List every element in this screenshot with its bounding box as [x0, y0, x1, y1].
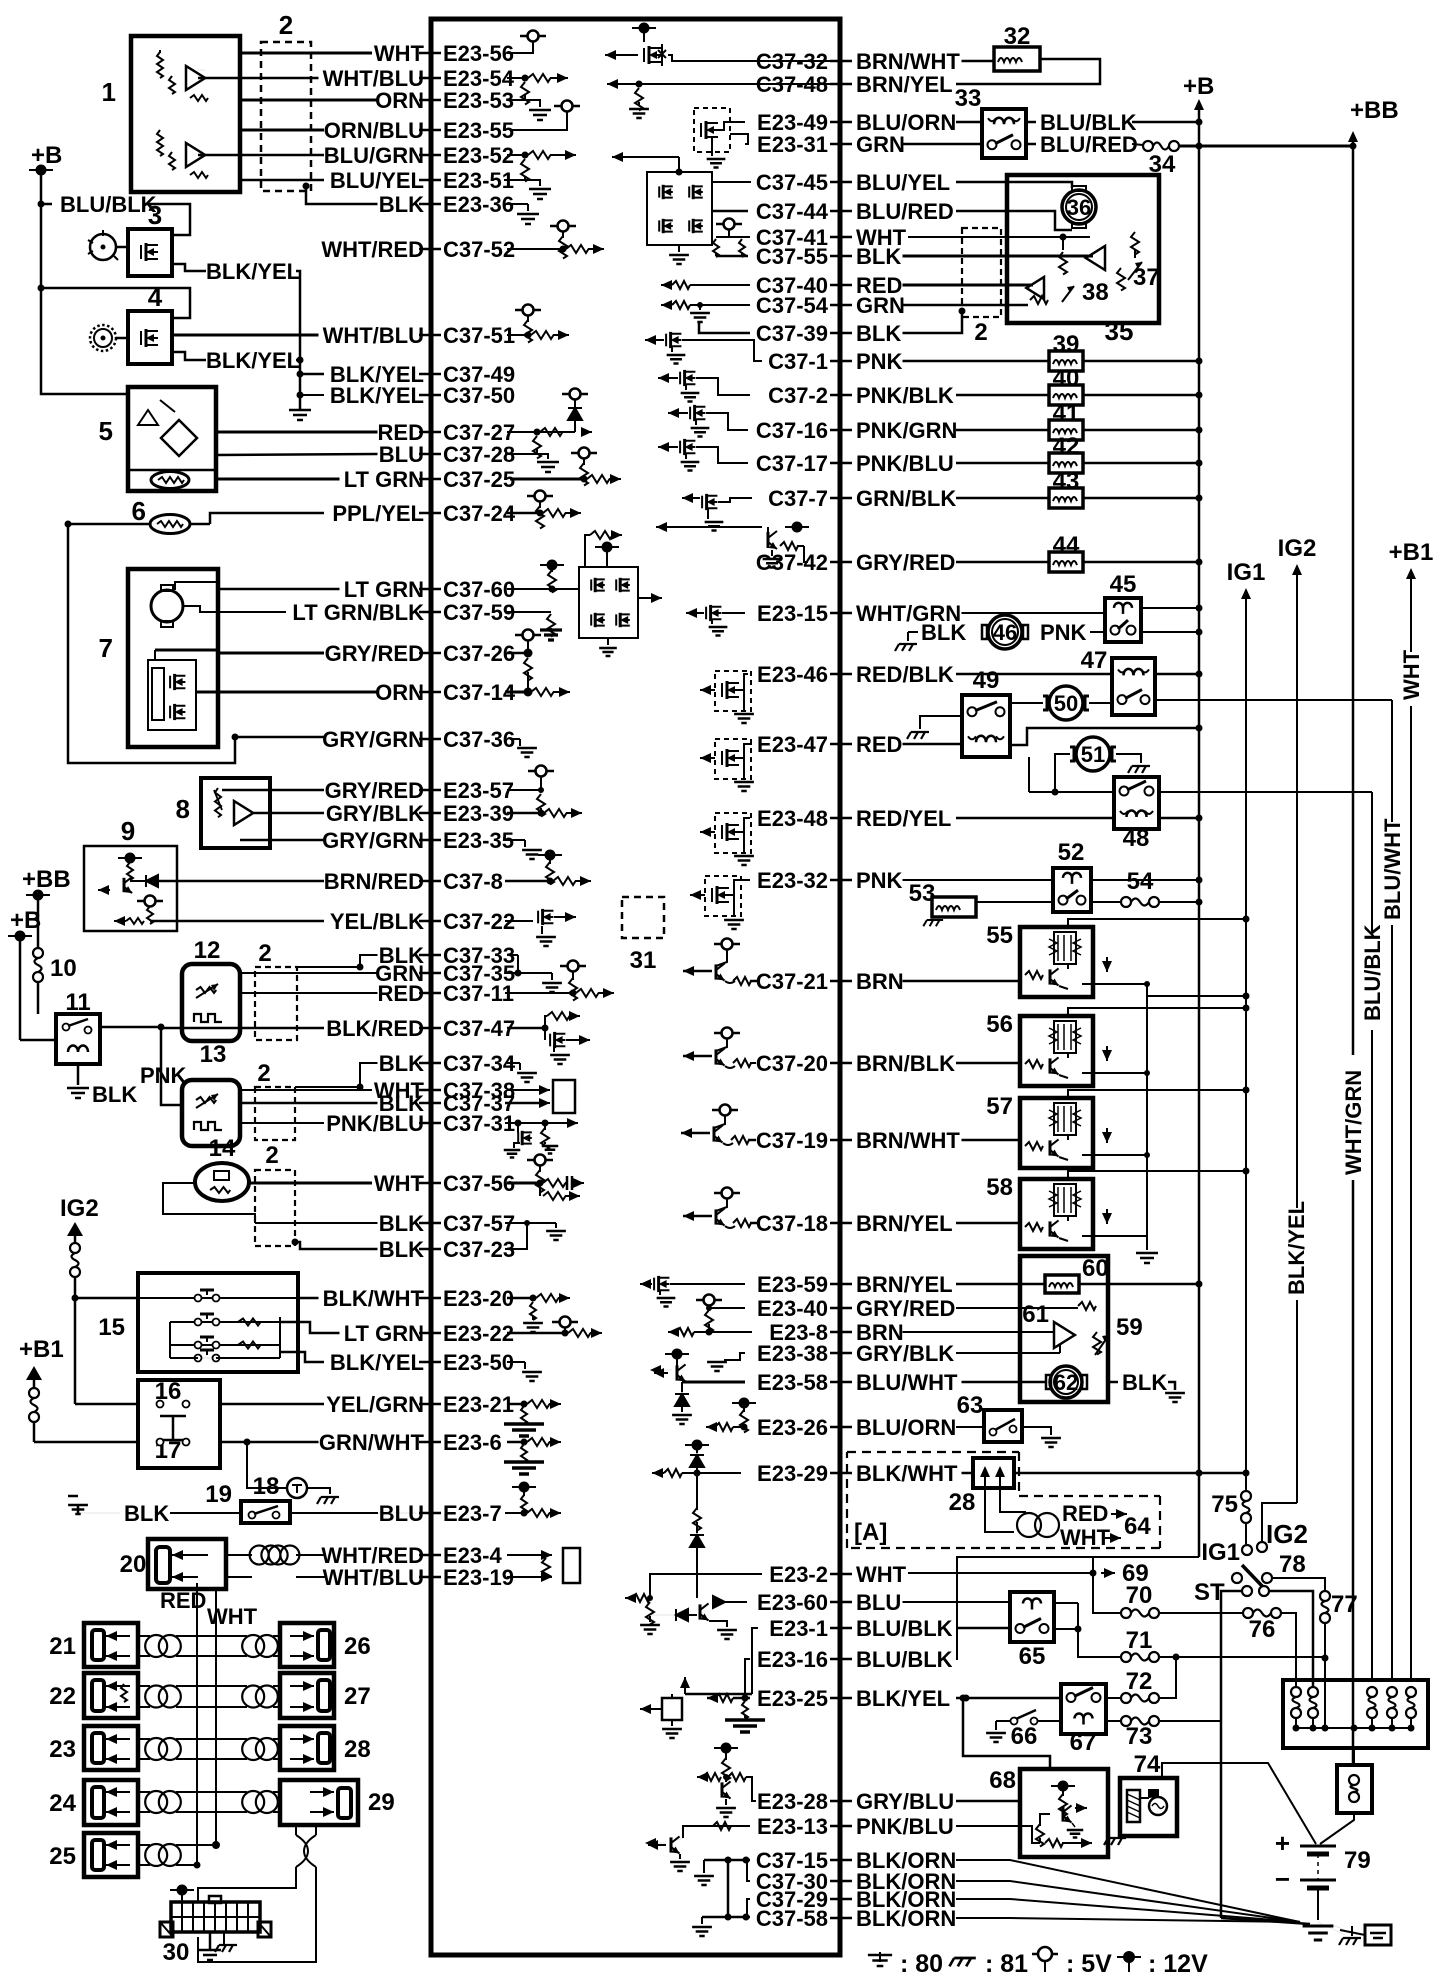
svg-text:: 81: : 81: [985, 1950, 1028, 1978]
ground bend at E23-38: [724, 1353, 745, 1360]
wires E23-1/E23-16 internal: [752, 1628, 758, 1694]
svg-text:21: 21: [49, 1633, 76, 1660]
branches at C37-31: [505, 1122, 570, 1124]
pin C37-16 / wire PNK/GRN: [830, 429, 852, 432]
wire BRN/WHT into 57: [962, 1139, 1021, 1142]
arrow out of quad box: [638, 597, 652, 599]
BLU/WHT rail: [1391, 700, 1393, 822]
wire +B1 into 17: [34, 1441, 138, 1444]
wire BLK/WHT through to rails: [1014, 1472, 1246, 1475]
resistor arrow at E23-54: [522, 75, 529, 82]
pin E23-2 / wire WHT: [830, 1573, 852, 1576]
svg-text:64: 64: [1124, 1513, 1151, 1540]
svg-text:39: 39: [1053, 331, 1080, 358]
svg-text:2: 2: [265, 1142, 278, 1169]
svg-text:C37-11: C37-11: [443, 981, 514, 1006]
svg-text:C37-47: C37-47: [443, 1016, 515, 1041]
pin E23-39 / wire GRY/BLK: [419, 812, 441, 815]
wire BLK/YEL to 67: [956, 1697, 1061, 1700]
ST wire to ground: [1221, 1918, 1310, 1924]
pin C37-2 / wire PNK/BLK: [830, 394, 852, 397]
switch 16: [157, 1401, 164, 1408]
ground under quad box: [607, 638, 609, 645]
svg-text:BLU: BLU: [379, 442, 424, 467]
ground at E23-50: [507, 1361, 525, 1363]
svg-text:24: 24: [49, 1790, 76, 1817]
pin C37-39 / wire BLK: [830, 332, 852, 335]
pin E23-54 / wire WHT/BLU: [419, 77, 441, 80]
svg-text:WHT/BLU: WHT/BLU: [323, 323, 424, 348]
mosfet pair inside 7: [148, 660, 196, 730]
wire BRN/RED to C37-8: [158, 880, 324, 883]
svg-text:14: 14: [209, 1135, 236, 1162]
pin C37-25 / wire LT GRN: [419, 478, 441, 481]
svg-text:9: 9: [121, 816, 135, 846]
svg-text:BLK/YEL: BLK/YEL: [206, 259, 300, 284]
svg-text:BLU/RED: BLU/RED: [856, 199, 954, 224]
svg-text:C37-7: C37-7: [768, 486, 828, 511]
svg-text:WHT: WHT: [374, 1171, 425, 1196]
RED vertical wire: [196, 1583, 198, 1864]
5V chain at C37-24: [535, 491, 546, 502]
svg-text:2: 2: [257, 1060, 270, 1087]
pin E23-25 / wire BLK/YEL: [830, 1697, 852, 1700]
svg-text:BLU/BLK: BLU/BLK: [856, 1616, 953, 1641]
svg-text:E23-15: E23-15: [757, 601, 828, 626]
svg-text:43: 43: [1053, 468, 1080, 495]
op-amp U1b inside component 1: [186, 143, 205, 167]
grounds under 30: [209, 1932, 212, 1950]
BLU/BLK rail: [1371, 792, 1373, 935]
wire BLU/RED into 35: [956, 211, 1072, 230]
svg-text:50: 50: [1054, 691, 1078, 716]
pin E23-60 / wire BLU: [830, 1601, 852, 1604]
svg-text:: 12V: : 12V: [1148, 1950, 1208, 1978]
wire GRN/WHT to E23-6: [220, 1441, 319, 1444]
svg-text:GRY/BLK: GRY/BLK: [856, 1341, 954, 1366]
pin E23-51 / wire BLU/YEL: [419, 179, 441, 182]
svg-text:BLK/YEL: BLK/YEL: [856, 1686, 950, 1711]
svg-text:LT GRN: LT GRN: [344, 467, 424, 492]
wire BLK/YEL from component 4: [172, 352, 206, 360]
svg-text:13: 13: [200, 1041, 227, 1068]
output transistor at C37-20: [722, 1028, 733, 1039]
wire YEL/BLK to C37-22: [150, 920, 324, 923]
svg-text:C37-22: C37-22: [443, 909, 515, 934]
svg-text:E23-56: E23-56: [443, 41, 514, 66]
driver at E23-59: [639, 1283, 641, 1285]
svg-text:65: 65: [1019, 1643, 1046, 1670]
wire BLK/WHT through 15 to E23-20: [298, 1297, 319, 1300]
svg-text:WHT: WHT: [856, 1562, 907, 1587]
svg-text:C37-56: C37-56: [443, 1171, 515, 1196]
pin C37-21 / wire BRN: [830, 980, 852, 983]
wire BLK/RED to C37-47: [161, 1027, 324, 1030]
pin C37-60 / wire LT GRN: [419, 588, 441, 591]
motor 50: [1043, 696, 1047, 710]
svg-text:BLK/YEL: BLK/YEL: [1284, 1201, 1309, 1295]
svg-text:C37-28: C37-28: [443, 442, 515, 467]
output transistor at C37-18: [722, 1188, 733, 1199]
svg-text:GRY/RED: GRY/RED: [325, 778, 424, 803]
svg-text:GRY/RED: GRY/RED: [856, 1296, 955, 1321]
motor 62 inside 59: [1050, 1366, 1082, 1398]
quad mosfet box at C37-60/59: [579, 567, 638, 638]
component 59 box: [1020, 1256, 1108, 1402]
5V chain at E23-40/E23-8: [704, 1295, 715, 1306]
svg-text:E23-1: E23-1: [769, 1616, 828, 1641]
svg-text:2: 2: [279, 10, 293, 40]
12V chain at E23-7: [512, 1486, 536, 1488]
svg-text:51: 51: [1081, 742, 1105, 767]
svg-text:BRN/BLK: BRN/BLK: [856, 1051, 955, 1076]
svg-text:BLU/YEL: BLU/YEL: [330, 168, 424, 193]
svg-text:[A]: [A]: [854, 1519, 887, 1546]
transistor inside 9: [123, 878, 126, 892]
12V chain at E23-28: [714, 1747, 738, 1749]
ignition rotor arm: [1242, 1565, 1263, 1587]
wire BLU to C37-28: [216, 454, 378, 455]
wire YEL/GRN to E23-21: [220, 1403, 324, 1406]
pin C37-14 / wire ORN: [419, 691, 441, 694]
svg-text:C37-58: C37-58: [756, 1906, 828, 1931]
svg-text:E23-7: E23-7: [443, 1501, 502, 1526]
pin E23-49 / wire BLU/ORN: [830, 121, 852, 124]
svg-text:IG2: IG2: [1266, 1519, 1308, 1549]
pin E23-1 / wire BLU/BLK: [830, 1627, 852, 1630]
wire PNK/BLU to C37-31: [240, 1122, 324, 1124]
wire BRN/BLK into 56: [956, 1062, 1020, 1065]
pin E23-47 / wire RED: [830, 743, 852, 746]
twisted pair wires 22: [138, 1685, 150, 1687]
pin E23-57 / wire GRY/RED: [419, 789, 441, 792]
ground at C37-28: [505, 453, 537, 455]
wire +B down to component 5: [41, 170, 128, 394]
5V chain at C37-52: [558, 221, 569, 232]
svg-text:38: 38: [1082, 279, 1109, 306]
svg-text:44: 44: [1053, 532, 1080, 559]
svg-text:BLK: BLK: [921, 620, 966, 645]
svg-text:WHT/RED: WHT/RED: [321, 237, 424, 262]
wires 13 to C37-34/38/37: [295, 1063, 378, 1087]
svg-text:46: 46: [993, 620, 1017, 645]
svg-text:PNK/BLU: PNK/BLU: [856, 451, 954, 476]
component 27 box: [280, 1673, 334, 1718]
svg-text:C37-31: C37-31: [443, 1111, 515, 1136]
pin C37-38 / wire WHT: [419, 1089, 441, 1092]
wire E23-31 bend: [730, 134, 748, 144]
transistor at E23-13: [683, 1826, 750, 1838]
svg-text:BRN/YEL: BRN/YEL: [856, 1211, 953, 1236]
12V dot inside 9: [118, 857, 142, 859]
svg-text:PNK/BLK: PNK/BLK: [856, 383, 954, 408]
svg-text:10: 10: [50, 955, 77, 982]
svg-text:C37-34: C37-34: [443, 1051, 516, 1076]
wire WHT/BLU from component 4 to C37-51: [172, 334, 319, 337]
coil secondary common vertical: [1146, 984, 1148, 1250]
main ground node: [1303, 1926, 1334, 1940]
connector pin at 1296: [1291, 1687, 1301, 1697]
pin C37-34 / wire BLK: [419, 1062, 441, 1065]
dashed connector 2 right: [962, 228, 1001, 317]
twisted pair wires 21: [138, 1635, 150, 1637]
pin E23-31 / wire GRN: [830, 143, 852, 146]
svg-text:BRN/RED: BRN/RED: [324, 869, 424, 894]
wire 76 to connector pin: [1281, 1613, 1296, 1686]
svg-text:+B1: +B1: [19, 1336, 64, 1363]
svg-text:GRY/BLK: GRY/BLK: [326, 801, 424, 826]
wires BLK/ORN to ground: [956, 1860, 1300, 1922]
svg-text:C37-45: C37-45: [756, 170, 828, 195]
pin E23-32 / wire PNK: [830, 879, 852, 882]
op-amp U1a inside component 1: [186, 66, 205, 90]
svg-text:WHT/GRN: WHT/GRN: [1341, 1070, 1366, 1175]
pin C37-23 / wire BLK: [419, 1248, 441, 1251]
svg-text:E23-20: E23-20: [443, 1286, 514, 1311]
motor inside 7: [151, 590, 183, 622]
svg-text:49: 49: [973, 667, 1000, 694]
wire BLK into 35: [903, 255, 1094, 258]
pin C37-59 / wire LT GRN/BLK: [419, 611, 441, 614]
12V at 30: [170, 1889, 194, 1891]
svg-text:+BB: +BB: [1350, 97, 1399, 124]
5V chain at C37-25: [579, 448, 590, 459]
svg-text:+BB: +BB: [22, 866, 71, 893]
pin C37-33 / wire BLK: [419, 954, 441, 957]
svg-text:BLK: BLK: [124, 1501, 169, 1526]
svg-text:36: 36: [1067, 195, 1091, 220]
pin C37-42 / wire GRY/RED: [830, 561, 852, 564]
5V pair at C37-41/55: [724, 219, 735, 230]
svg-text:C37-21: C37-21: [756, 969, 828, 994]
wire 73 switch: [1106, 1720, 1121, 1722]
svg-text:6: 6: [132, 496, 146, 526]
switch 17: [157, 1439, 164, 1446]
svg-text:E23-21: E23-21: [443, 1392, 514, 1417]
svg-text:PNK: PNK: [140, 1063, 187, 1088]
svg-text:15: 15: [98, 1314, 125, 1341]
svg-text:RED: RED: [1062, 1501, 1108, 1526]
wire GRY/BLK to E23-39: [254, 812, 324, 815]
output transistor at C37-19: [720, 1105, 731, 1116]
svg-text:C37-59: C37-59: [443, 600, 515, 625]
svg-text:C37-55: C37-55: [756, 244, 828, 269]
pin C37-1 / wire PNK: [830, 360, 852, 363]
junction at C37-33/35: [507, 954, 518, 956]
wire WHT row to 69: [908, 1572, 1093, 1574]
connector at IG2: [70, 1243, 80, 1253]
wire GRY/GRN to E23-35: [240, 839, 324, 842]
pin E23-26 / wire BLU/ORN: [830, 1426, 852, 1429]
pin E23-56 / wire WHT: [419, 52, 441, 55]
ECU main box: [431, 19, 840, 1955]
connector pin at 1392: [1387, 1687, 1397, 1697]
wire loop 32 to BRN/YEL: [956, 59, 1100, 84]
svg-text:78: 78: [1279, 1551, 1306, 1578]
wire GRN into 35: [903, 304, 1029, 307]
svg-text:19: 19: [205, 1481, 232, 1508]
bottom right connector box: [1283, 1680, 1428, 1748]
svg-text:C37-1: C37-1: [768, 349, 828, 374]
svg-text:61: 61: [1022, 1301, 1049, 1328]
5V and resistor inside 9: [145, 896, 156, 907]
svg-text:BLK: BLK: [379, 1237, 424, 1262]
twisted pair wires 24: [138, 1791, 150, 1793]
pin C37-57 / wire BLK: [419, 1222, 441, 1225]
component 1 box: [131, 36, 240, 192]
pin E23-53 / wire ORN: [419, 99, 441, 102]
svg-text:11: 11: [65, 989, 90, 1016]
thermistor oval inside 5: [151, 472, 189, 489]
pin C37-27 / wire RED: [419, 431, 441, 434]
dashed driver at E23-48: [699, 831, 701, 833]
component 28 box: [280, 1726, 334, 1770]
svg-text:E23-22: E23-22: [443, 1321, 514, 1346]
pin C37-49 / wire BLK/YEL: [419, 373, 441, 376]
transistor chain at C37-42: [655, 526, 657, 528]
svg-text:E23-32: E23-32: [757, 868, 828, 893]
dashed box A: [847, 1452, 1160, 1548]
svg-text:C37-39: C37-39: [756, 321, 828, 346]
mosfet chain at C37-47: [507, 1027, 545, 1030]
wire left rail to component 7: [68, 524, 324, 763]
wire BLK/YEL from component 3: [172, 264, 206, 271]
svg-text:68: 68: [989, 1767, 1016, 1794]
svg-text:C37-50: C37-50: [443, 383, 515, 408]
resistor ground chain at E23-6: [507, 1441, 524, 1444]
junction at C37-57/23: [505, 1222, 556, 1224]
svg-text:E23-58: E23-58: [757, 1370, 828, 1395]
pin C37-18 / wire BRN/YEL: [830, 1222, 852, 1225]
resistor arrow bottom of 68: [1036, 1824, 1044, 1847]
pin C37-51 / wire WHT/BLU: [419, 334, 441, 337]
wire BLK/YEL to C37-50: [300, 394, 324, 396]
svg-text:+B: +B: [1183, 73, 1214, 100]
svg-text:GRN/WHT: GRN/WHT: [319, 1430, 425, 1455]
svg-text:RED/BLK: RED/BLK: [856, 662, 954, 687]
ground at C37-36: [510, 738, 520, 740]
boxed ground symbol: [1365, 1925, 1391, 1945]
twisted pair from 20: [226, 1554, 252, 1556]
svg-text:2: 2: [974, 319, 987, 346]
svg-text:E23-25: E23-25: [757, 1686, 828, 1711]
component 16/17 box: [138, 1380, 220, 1468]
bridge rectifier inside 5: [161, 420, 197, 456]
svg-text:E23-51: E23-51: [443, 168, 514, 193]
svg-text:IG2: IG2: [60, 1195, 99, 1222]
svg-text:BLK/WHT: BLK/WHT: [856, 1461, 958, 1486]
fuse 60: [1045, 1275, 1079, 1293]
svg-text:4: 4: [148, 282, 163, 312]
svg-text:GRN/BLK: GRN/BLK: [856, 486, 956, 511]
svg-text:BLK/WHT: BLK/WHT: [323, 1286, 425, 1311]
pin E23-40 / wire GRY/RED: [830, 1307, 852, 1310]
12V chain at C37-60: [540, 564, 564, 566]
svg-text:C37-16: C37-16: [756, 418, 828, 443]
svg-text:E23-16: E23-16: [757, 1647, 828, 1672]
pin C37-11 / wire RED: [419, 992, 441, 995]
svg-text:E23-50: E23-50: [443, 1350, 514, 1375]
wire 48 switch row: [1029, 791, 1114, 793]
svg-text:E23-19: E23-19: [443, 1565, 514, 1590]
svg-text:E23-53: E23-53: [443, 88, 514, 113]
svg-text:C37-51: C37-51: [443, 323, 515, 348]
pin C37-48 / wire BRN/YEL: [830, 83, 852, 86]
wire BLU/BLK from 33: [1026, 121, 1036, 124]
svg-text:PNK: PNK: [856, 868, 903, 893]
pin C37-24 / wire PPL/YEL: [419, 512, 441, 515]
svg-text:−: −: [1275, 1864, 1290, 1894]
wire C37-39 up to ground: [699, 323, 750, 333]
svg-text:RED: RED: [856, 732, 902, 757]
ground at E23-36: [504, 203, 528, 205]
component 29 box: [280, 1780, 358, 1825]
dashed connector 2 top: [261, 42, 311, 191]
svg-text:C37-52: C37-52: [443, 237, 515, 262]
svg-text:28: 28: [344, 1736, 371, 1763]
connector internal bus: [1296, 1727, 1411, 1729]
dashed connector 2 at 13: [255, 1087, 295, 1140]
svg-text:E23-6: E23-6: [443, 1430, 502, 1455]
12V diode chain at E23-29: [685, 1444, 709, 1446]
svg-text:WHT: WHT: [1060, 1525, 1111, 1550]
svg-text:ORN: ORN: [375, 88, 424, 113]
svg-text:BLU: BLU: [856, 1590, 901, 1615]
svg-text:23: 23: [49, 1736, 76, 1763]
svg-text:45: 45: [1110, 571, 1137, 598]
pin C37-55 / wire BLK: [830, 255, 852, 258]
svg-text:GRN: GRN: [856, 132, 905, 157]
pin C37-30 / wire BLK/ORN: [830, 1880, 852, 1883]
resistor ground chain at E23-20: [507, 1297, 533, 1300]
pin E23-13 / wire PNK/BLU: [830, 1825, 852, 1828]
pin E23-4 / wire WHT/RED: [419, 1554, 441, 1557]
svg-text:E23-29: E23-29: [757, 1461, 828, 1486]
svg-text:+: +: [1275, 1828, 1290, 1858]
pin C37-17 / wire PNK/BLU: [830, 462, 852, 465]
wire BLK/YEL to E23-50: [280, 1352, 324, 1362]
svg-text:PNK: PNK: [856, 349, 903, 374]
wire BLK to C37-57: [163, 1183, 255, 1223]
svg-text:55: 55: [986, 922, 1013, 949]
svg-text:LT GRN: LT GRN: [344, 1321, 424, 1346]
svg-text:BLK/ORN: BLK/ORN: [856, 1906, 956, 1931]
wire RED/YEL to 48 coil: [956, 817, 1114, 820]
transistor cluster at E23-60: [676, 1609, 688, 1621]
svg-text:+B1: +B1: [1389, 539, 1434, 566]
wire +B branch to component 4: [41, 288, 190, 318]
wire 65 coil to junction: [1054, 1602, 1078, 1604]
motor 36 inside 35: [1062, 190, 1096, 224]
svg-text:BLU/BLK: BLU/BLK: [1360, 924, 1385, 1021]
svg-text:C37-17: C37-17: [756, 451, 828, 476]
wire 11 to junction PNK: [100, 1026, 161, 1029]
wire 70 switch: [1093, 1573, 1121, 1613]
svg-text:PNK/BLU: PNK/BLU: [326, 1111, 424, 1136]
svg-text:47: 47: [1081, 647, 1108, 674]
dashed box 31: [622, 897, 664, 938]
wire LT GRN to C37-60: [175, 582, 218, 590]
svg-text:2: 2: [258, 940, 271, 967]
wire LT GRN to E23-22: [280, 1322, 340, 1333]
svg-text:: 80: : 80: [900, 1950, 943, 1978]
component 26 box: [280, 1623, 334, 1667]
svg-text:26: 26: [344, 1633, 371, 1660]
svg-text:WHT: WHT: [374, 41, 425, 66]
svg-text:BLU/WHT: BLU/WHT: [856, 1370, 958, 1395]
svg-text:22: 22: [49, 1683, 76, 1710]
wire 49 coil to +B: [1010, 728, 1199, 745]
